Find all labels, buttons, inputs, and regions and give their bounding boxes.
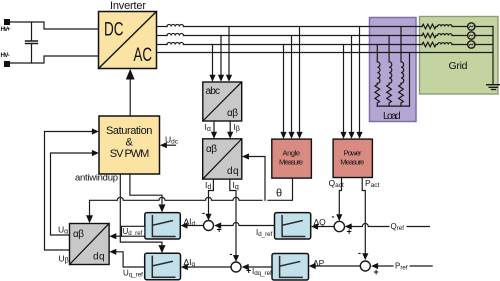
label box Ud_ref [122,226,145,236]
arrows into angle measure [280,132,302,139]
grid wire c [452,44,493,46]
arrow Ibeta [227,132,233,139]
svg-text:-: - [332,212,335,222]
load resistor R1 [375,83,380,106]
arrow theta into dq-alphabeta [86,215,93,223]
arrow Ubeta into saturation [92,128,99,134]
wire phase A (L1 y=26) [157,26,168,28]
svg-text:Grid: Grid [449,60,468,72]
svg-text:Power: Power [344,149,363,158]
svg-text:αβ: αβ [206,144,217,155]
wire Id_ref with hop [221,223,275,226]
block alphabeta-dq converter [203,139,242,179]
arrow into abc tap a [209,75,215,82]
arrow into abc tap b [218,75,224,82]
svg-text:-: - [230,249,233,259]
junction sum Id [204,221,214,231]
wire Iq stub [230,179,236,255]
grid resistor Rgb [422,33,436,38]
wire tap Vc to angle measure [299,27,301,133]
svg-text:Angle: Angle [283,149,301,158]
terminal HV+ [4,19,10,25]
grid neutral bus wire [492,27,494,84]
arrow into inverter [126,69,135,80]
svg-text:ΔQ: ΔQ [314,217,327,227]
terminal HV- [4,61,10,67]
ground [487,85,500,90]
svg-text:HV-: HV- [1,52,10,59]
block angle measure [272,139,312,178]
svg-text:SV PWM: SV PWM [110,148,150,160]
wire DC- [10,56,99,63]
wire Ud_ref [116,235,122,237]
wire Idq_ref [248,266,272,268]
wire neutral (L4 y=52) [157,52,494,54]
svg-text:αβ: αβ [73,229,84,240]
arrow into abc tap c [226,75,232,82]
arrow Idq_ref into junction 2 [242,264,249,270]
block saturation sv pwm [99,116,160,174]
arrow Iq into junction 2 [233,255,239,262]
label Pref [394,260,410,272]
arrow Id into junction 1 [205,214,211,221]
junction sum Iq [231,262,241,272]
antiwindup wire 1 [130,174,162,204]
svg-text:+: + [217,225,222,235]
inductor La [167,24,184,26]
block PI controller Iq [145,253,181,279]
wire dP to PI4 [315,265,360,267]
wire tap Pb to power measure [351,36,353,133]
svg-text:dq: dq [93,252,105,263]
arrow Ud_ref into dq-alphabeta [109,233,116,239]
svg-text:Measure: Measure [340,158,364,167]
arrow antiwindup into PI1 [159,204,166,212]
load branch 3 wire [400,27,402,62]
grid block GRID [420,17,499,95]
theta branch to dq converter [249,157,266,201]
wire Qact [339,178,341,215]
grid inductor Lgc [436,43,452,45]
block PI controller Id [145,213,181,239]
inductor Lc [167,42,184,44]
block power measure [333,139,372,177]
svg-text:&: & [126,137,134,149]
wire Ialpha [213,121,215,132]
wire tap Vb to angle measure [291,36,293,133]
svg-text:θ: θ [276,188,282,200]
wire Pref [378,265,433,267]
load neutral bus wire [377,105,409,107]
inductor Lb [167,33,184,35]
theta wire hops over Iq Id antiwindup drops [90,197,263,216]
svg-text:HV+: HV+ [1,26,11,33]
wire dIq to PI2 [187,266,231,268]
antiwindup wire 2 [120,174,162,245]
wire phase B to grid [184,35,423,37]
grid wire a [452,26,493,28]
arrow dId into PI1 [181,222,188,228]
wire phase C (L3 y=44) [157,44,168,46]
svg-text:dq: dq [227,166,239,177]
arrow dQ into PI3 [311,223,318,229]
arrow Pref into junction 4 [371,263,378,269]
svg-text:+: + [347,227,352,237]
arrows into power measure [340,132,362,139]
capacitor C1 [26,22,38,63]
block abc-alphabeta converter [203,82,242,121]
arrow theta into dq converter [242,153,249,159]
inverter U1 [99,12,157,69]
svg-text:Saturation: Saturation [106,125,152,137]
arrow Ualpha into saturation [92,150,99,156]
wire Ualpha into saturation [51,153,93,235]
wire tap Pa to power measure [343,45,345,133]
wire pwm to inverter [129,78,131,117]
wire tap Va to angle measure [283,45,285,133]
wire Udc stub [166,144,176,146]
junction sum Q [334,221,344,231]
svg-text:-: - [358,248,361,258]
wire Uq_ref [116,252,145,267]
grid source Vgb [468,32,475,39]
grid wire b [452,35,493,37]
wire phase A to grid [184,26,423,28]
arrow Ialpha [211,132,217,139]
arrow Qact into junction 3 [336,214,342,221]
label Qref [390,221,407,233]
wire tap Ia to abc [212,45,214,76]
arrow Uq_ref into dq-alphabeta [109,249,116,255]
grid source Vga [468,23,475,30]
wire tap Ic to abc [228,27,230,76]
arrow dIq into PI2 [181,264,188,270]
arrow antiwindup into PI2 [159,245,166,253]
svg-text:-: - [202,208,205,218]
svg-text:AC: AC [134,45,153,66]
wire Ubeta into saturation [45,132,93,251]
svg-text:Inverter: Inverter [110,0,146,12]
wire phase B (L2 y=35) [157,35,168,37]
theta wire from angle measure [268,178,293,200]
wire DC+ [10,22,99,29]
block PI controller Q [275,213,311,239]
wire tap Pc to power measure [359,27,361,133]
load resistor R2 [387,83,392,106]
block PI controller P [272,254,309,281]
load block LOAD [370,18,417,122]
wire tap Ib to abc [220,36,222,76]
wire Qref with hop [351,224,429,227]
svg-text:DC: DC [104,20,124,41]
grid source Vgc [468,41,475,48]
load neutral riser wire [409,53,411,107]
grid resistor Rga [422,24,436,29]
grid inductor Lgb [436,34,452,36]
load inductor L2 [389,62,392,84]
svg-text:Load: Load [383,111,401,122]
wire dQ to PI3 [318,226,335,228]
svg-text:antiwindup: antiwindup [75,173,118,184]
wire phase C to grid [184,44,423,46]
block dq-alphabeta converter [70,224,110,265]
svg-text:Measure: Measure [279,158,303,167]
load branch 1 wire [376,45,378,62]
wire Ibeta [229,121,231,132]
junction sum P [360,261,370,271]
svg-text:abc: abc [206,86,221,97]
arrow Udc [160,142,167,148]
arrow Pact into junction 4 [362,253,368,260]
arrow Id_ref into junction 1 [214,222,221,228]
load branch 2 wire [388,36,390,62]
grid resistor Rgc [422,42,436,47]
svg-text:αβ: αβ [227,108,238,119]
svg-text:+: + [246,266,251,276]
load inductor L3 [401,62,404,84]
svg-text:+: + [374,267,379,277]
arrow dP into PI4 [309,263,316,269]
arrow Qref into junction 3 [345,223,352,229]
wire Id stub [209,179,214,214]
load resistor R3 [399,83,404,106]
grid inductor Lga [436,25,452,27]
svg-text:ΔP: ΔP [313,258,325,268]
wire Pact [362,178,365,254]
load inductor L1 [377,62,380,84]
wire dId to PI1 [187,225,204,227]
